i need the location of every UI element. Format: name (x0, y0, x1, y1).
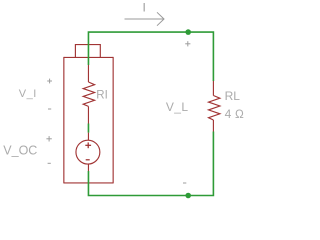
svg-text:RI: RI (96, 89, 108, 101)
voltage source V1 circle (76, 133, 100, 171)
svg-text:Ω: Ω (235, 107, 244, 121)
source minus sign (86, 159, 90, 161)
wire between RI and source (87, 124, 89, 133)
minus sign V_OC (48, 162, 51, 164)
current arrow I (125, 12, 165, 25)
wire bottom return (88, 132, 213, 196)
minus sign right node (183, 182, 186, 184)
svg-text:V_I: V_I (19, 88, 37, 100)
plus sign right node (185, 41, 190, 46)
black box (Thevenin source) outline (64, 45, 113, 184)
plus sign V_I (47, 79, 52, 84)
wire top node from source box to RL (88, 32, 213, 195)
node junction dot bottom (185, 193, 191, 199)
svg-text:V_OC: V_OC (3, 143, 37, 157)
node junction dot top (185, 29, 191, 35)
resistor RL (209, 81, 220, 132)
plus sign V_OC (46, 136, 51, 141)
svg-text:V_L: V_L (166, 100, 189, 114)
wire left vertical + top horizontal + right vertical down to RL (88, 32, 213, 81)
minus sign V_I (48, 108, 51, 110)
svg-text:4: 4 (225, 107, 232, 121)
svg-text:RL: RL (225, 89, 241, 103)
svg-text:I: I (143, 1, 146, 15)
resistor RI (83, 65, 94, 124)
source plus sign (85, 142, 91, 148)
